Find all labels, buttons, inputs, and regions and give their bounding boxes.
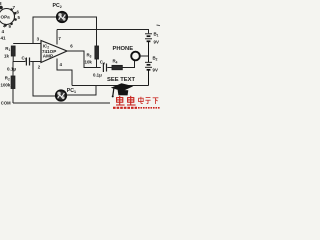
svg-text:4: 4 [2, 29, 5, 34]
svg-text:PHONE: PHONE [113, 46, 134, 52]
svg-text:SEE TEXT: SEE TEXT [107, 77, 135, 83]
op-amp U1 741 triangle [41, 41, 67, 63]
pin 2 wire with C1 gap [13, 61, 25, 63]
resistor R3 [95, 46, 99, 68]
wire C4 to R4 [107, 67, 112, 69]
watermark logo: graduation cap [111, 83, 133, 97]
wire: pin2 node down to PC1 [33, 62, 56, 97]
svg-text:R4: R4 [113, 59, 118, 65]
can pin dots [0, 6, 17, 27]
capacitor C4 [103, 63, 106, 72]
resistor R2 [11, 62, 15, 104]
watermark url line (red) [113, 107, 160, 109]
watermark text: dian zi xia (red) [139, 97, 159, 104]
svg-text:OPa: OPa [1, 15, 11, 20]
svg-text:C1: C1 [22, 56, 27, 62]
battery B2 [145, 56, 152, 86]
wire: PC1 right up to V- rail [66, 86, 96, 96]
svg-text:B1: B1 [154, 32, 159, 38]
svg-text:R1: R1 [5, 46, 10, 52]
resistor R4 [112, 65, 122, 69]
svg-text:100k: 100k [1, 83, 11, 88]
svg-text:0.1μ: 0.1μ [93, 73, 102, 78]
svg-text:9V: 9V [153, 68, 158, 73]
svg-text:10k: 10k [85, 60, 93, 65]
svg-text:AMP: AMP [43, 54, 53, 59]
pin 4 stub and wire to V- rail [57, 59, 72, 86]
photocell PC2 [57, 12, 67, 22]
svg-text:COM: COM [1, 101, 11, 106]
photocell PC1 [56, 90, 66, 100]
wire: V+ rail to battery B1 [57, 30, 149, 34]
pin 7 stub [56, 30, 58, 45]
svg-text:7: 7 [13, 5, 16, 10]
pin 3 wire [13, 43, 41, 45]
wire phone to battery midpoint [140, 55, 149, 57]
IC1 741 can package pinout (top-left, clipped at edge) [0, 9, 15, 25]
wire: PC2 right to top-right corner node [68, 17, 97, 46]
svg-text:1k: 1k [4, 54, 9, 59]
svg-text:0.1μ: 0.1μ [7, 67, 16, 72]
wire: PC2 left to corner [33, 17, 57, 44]
phone jack J1 [131, 52, 140, 61]
COM rail [13, 102, 110, 104]
wire R4 to phone [122, 60, 134, 67]
resistor R1 [11, 46, 15, 62]
V- rail [72, 85, 149, 87]
stray mark right edge [157, 24, 161, 27]
svg-text:B2: B2 [153, 56, 158, 62]
capacitor C1 [26, 58, 29, 66]
battery B1 [145, 34, 152, 56]
svg-text:41: 41 [1, 36, 7, 41]
pin 6 output wire [67, 51, 101, 68]
watermark text: chong chong (red) [116, 96, 136, 105]
svg-text:R2: R2 [5, 76, 10, 82]
svg-text:C4: C4 [100, 60, 105, 66]
svg-text:R3: R3 [87, 53, 92, 59]
svg-text:9V: 9V [154, 40, 159, 45]
